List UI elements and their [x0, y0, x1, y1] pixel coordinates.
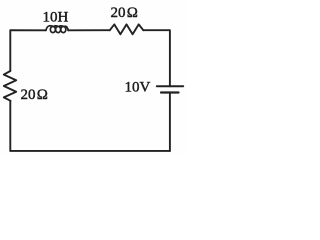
wire top-right segment: [143, 30, 170, 86]
wire right-bottom segment: [169, 93, 171, 151]
wire bottom segment: [10, 150, 170, 152]
resistor R1 20ohm top: [110, 24, 144, 34]
svg-text:20 Ω: 20 Ω: [111, 5, 138, 21]
svg-text:10V: 10V: [125, 79, 151, 95]
battery V1 short plate (-): [161, 91, 179, 93]
svg-text:20 Ω: 20 Ω: [21, 87, 48, 103]
wire left-top segment: [10, 30, 46, 71]
svg-text:10H: 10H: [43, 9, 69, 25]
wire top-middle segment: [68, 29, 110, 31]
battery V1 long plate (+): [157, 85, 183, 87]
wire left-bottom segment: [9, 101, 11, 151]
resistor R2 20ohm left: [4, 71, 16, 101]
inductor L1 10H: [46, 26, 69, 33]
